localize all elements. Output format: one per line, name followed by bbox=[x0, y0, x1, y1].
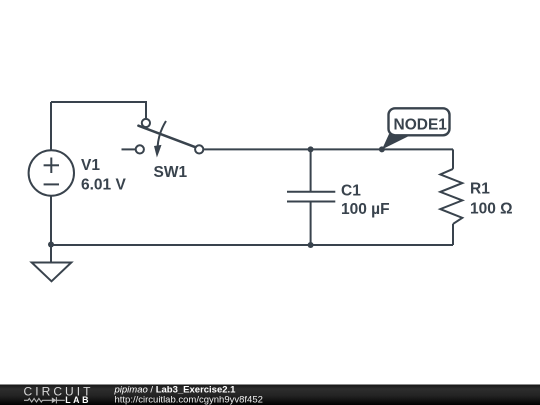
label C1 value bbox=[341, 182, 390, 218]
voltage source V1 bbox=[29, 150, 74, 195]
wire top horizontal bbox=[51, 102, 146, 119]
wire right vertical top bbox=[452, 149, 454, 169]
resistor R1 bbox=[440, 169, 462, 224]
svg-text:R1: R1 bbox=[470, 180, 490, 197]
footer bar bbox=[0, 385, 540, 405]
wire V1 bottom bbox=[50, 196, 52, 245]
svg-text:100 µF: 100 µF bbox=[341, 201, 390, 218]
node junction dot ground bbox=[48, 242, 54, 248]
ground bbox=[32, 263, 72, 282]
svg-text:SW1: SW1 bbox=[154, 164, 188, 181]
wire right vertical bottom bbox=[452, 224, 454, 245]
svg-text:LAB: LAB bbox=[65, 395, 91, 405]
switch SW1 bbox=[122, 119, 204, 154]
capacitor C1 bbox=[287, 192, 335, 202]
node NODE1 dot bbox=[379, 146, 385, 152]
svg-text:http://circuitlab.com/cgynh9yv: http://circuitlab.com/cgynh9yv8f452 bbox=[115, 394, 263, 405]
svg-text:V1: V1 bbox=[81, 157, 100, 174]
svg-text:NODE1: NODE1 bbox=[394, 117, 448, 134]
switch SW1 arrowhead bbox=[154, 145, 162, 158]
node junction dot C1 top bbox=[308, 146, 314, 152]
svg-text:6.01 V: 6.01 V bbox=[81, 176, 126, 193]
node NODE1 callout pointer bbox=[382, 134, 413, 149]
wire top-left vertical bbox=[50, 102, 52, 150]
logo diode bbox=[52, 397, 57, 403]
svg-text:C1: C1 bbox=[341, 182, 361, 199]
label V1 value bbox=[81, 157, 126, 193]
wire bottom horizontal bbox=[51, 244, 453, 246]
wire ground stem bbox=[50, 245, 52, 263]
wire capacitor bottom bbox=[310, 202, 312, 245]
node NODE1 callout box bbox=[389, 108, 450, 135]
wire node horizontal bbox=[203, 148, 453, 150]
label R1 value bbox=[470, 180, 513, 217]
wire capacitor top bbox=[310, 149, 312, 191]
logo resistor-diode line bbox=[24, 397, 65, 403]
node junction dot C1 bottom bbox=[308, 242, 314, 248]
svg-text:100 Ω: 100 Ω bbox=[470, 200, 513, 217]
